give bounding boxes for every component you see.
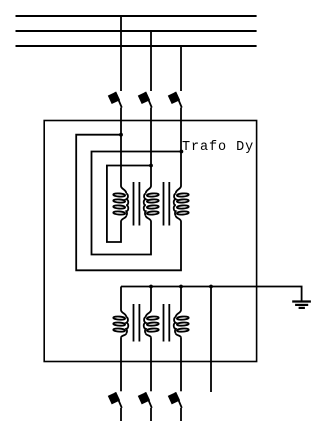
wire feeder3 end bbox=[180, 408, 182, 421]
breaker CB2 bbox=[138, 92, 152, 108]
wire sec2 top bbox=[150, 287, 152, 311]
core lines lower left pair bbox=[133, 304, 135, 342]
breaker CB6 bbox=[168, 392, 182, 408]
primary winding W3 bbox=[174, 186, 189, 222]
bus L1 bbox=[16, 15, 257, 17]
secondary winding W5 bbox=[144, 310, 159, 338]
breaker CB4 bbox=[108, 392, 122, 408]
secondary bus / neutral line bbox=[121, 287, 302, 302]
delta link coil3-bottom to phase1 (outer U) bbox=[76, 135, 181, 271]
breaker CB1 bbox=[108, 92, 122, 108]
node: sec bus j2 bbox=[149, 285, 153, 289]
node: delta A junction bbox=[119, 133, 123, 137]
breaker CB5 bbox=[138, 392, 152, 408]
wire neutral stub bbox=[210, 287, 212, 393]
wire phase1 drop bbox=[120, 16, 122, 91]
core lines upper left pair bbox=[133, 182, 135, 226]
node: sec bus neutral bbox=[209, 285, 213, 289]
wire phase3 to primary coil bbox=[180, 108, 182, 186]
wire phase3 drop bbox=[180, 46, 182, 91]
transformer enclosure box bbox=[44, 121, 256, 362]
node: delta B junction bbox=[180, 150, 184, 154]
primary winding W1 (mirrored) bbox=[113, 186, 128, 222]
wire phase2 drop bbox=[150, 31, 152, 91]
secondary winding W4 (mirrored) bbox=[113, 310, 128, 338]
secondary winding W6 bbox=[174, 310, 189, 338]
node: delta C junction bbox=[149, 164, 153, 168]
wire sec3 top bbox=[180, 287, 182, 311]
primary winding W2 bbox=[144, 186, 159, 222]
breaker CB3 bbox=[168, 92, 182, 108]
wire sec1 down bbox=[120, 338, 122, 392]
svg-text:Trafo Dy: Trafo Dy bbox=[182, 140, 253, 155]
wire phase1 to primary coil bbox=[120, 108, 122, 186]
wire feeder1 end bbox=[120, 408, 122, 421]
wire phase2 to primary coil bbox=[150, 108, 152, 186]
wire sec1 top bbox=[120, 287, 122, 311]
bus L3 bbox=[16, 45, 257, 47]
wire sec3 down bbox=[180, 338, 182, 392]
core lines upper right pair bbox=[163, 182, 165, 226]
bus L2 bbox=[16, 30, 257, 32]
wire sec2 down bbox=[150, 338, 152, 392]
ground symbol bbox=[292, 302, 311, 308]
delta link coil1-bottom to phase2 (inner U) bbox=[107, 166, 151, 243]
delta link coil2-bottom to phase3 (middle U) bbox=[92, 152, 182, 255]
wire feeder2 end bbox=[150, 408, 152, 421]
core lines lower right pair bbox=[163, 304, 165, 342]
node: sec bus j3 bbox=[179, 285, 183, 289]
